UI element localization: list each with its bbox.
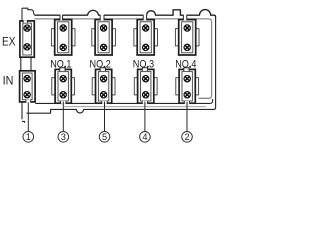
svg-text:3: 3 [61, 132, 66, 142]
svg-text:5: 5 [102, 132, 107, 142]
svg-text:NO.1: NO.1 [50, 59, 71, 71]
svg-text:1: 1 [26, 132, 31, 142]
svg-text:2: 2 [184, 132, 189, 142]
svg-text:IN: IN [3, 75, 14, 88]
svg-text:NO.3: NO.3 [133, 59, 154, 71]
svg-text:NO.2: NO.2 [90, 59, 111, 71]
svg-text:NO.4: NO.4 [175, 59, 196, 71]
svg-text:4: 4 [142, 132, 147, 142]
svg-text:EX: EX [2, 36, 16, 49]
